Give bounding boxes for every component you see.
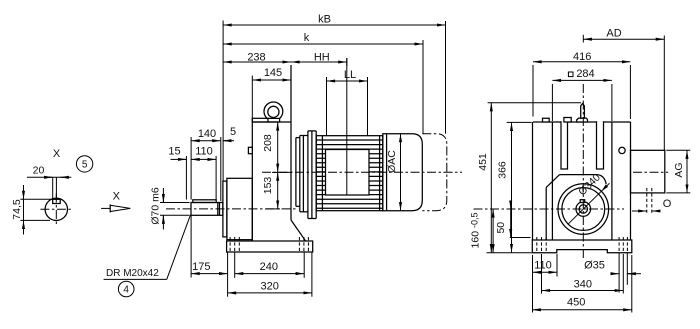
svg-text:5: 5 (82, 160, 88, 171)
shaft section centerline vertical (55, 194, 57, 227)
front view horizontal centerline (474, 208, 625, 210)
dimension 110 foot (533, 254, 558, 313)
svg-text:LL: LL (344, 69, 356, 81)
dimension 160 -0,5 (470, 209, 532, 253)
svg-text:340: 340 (574, 278, 592, 290)
dimension 366 (496, 122, 531, 252)
label DR M20x42 with leader (104, 215, 191, 280)
dimension 340 (542, 254, 624, 294)
dimension 208 (262, 122, 292, 172)
dimension AG (666, 150, 690, 193)
svg-text:240: 240 (260, 261, 278, 273)
drain hole hidden lines (647, 188, 652, 214)
svg-text:4: 4 (123, 285, 129, 296)
svg-text:20: 20 (33, 164, 45, 176)
motor stator block (326, 150, 370, 196)
top lug left (543, 118, 550, 122)
dimension 110 key length (191, 146, 216, 200)
shaft cross-section circle (45, 198, 67, 220)
svg-text:366: 366 (496, 161, 508, 179)
dimension Ø35 (584, 253, 641, 293)
shaft key side view (193, 200, 216, 203)
dimension 153 (262, 172, 280, 209)
svg-text:ØAC: ØAC (386, 150, 398, 173)
svg-text:AD: AD (606, 27, 621, 39)
output shaft centerline (166, 208, 298, 210)
eyebolt ring (264, 102, 283, 121)
dimension 140 shaft length (191, 128, 221, 201)
flange ring 1 (296, 138, 300, 207)
view direction label X (113, 190, 121, 202)
dimension AD (583, 27, 664, 150)
svg-text:284: 284 (576, 68, 594, 80)
svg-text:X: X (113, 190, 121, 202)
breather valve (577, 103, 588, 122)
dimension kB (223, 13, 445, 181)
clamp slot right (597, 121, 604, 169)
dimension HH (291, 51, 347, 63)
dimension 50 (495, 201, 531, 238)
output flange circle inner (562, 188, 605, 231)
housing front face edges (552, 122, 612, 240)
dimension 5 (223, 126, 236, 141)
motor vertical centerline (346, 58, 348, 195)
keyway key section (53, 199, 61, 203)
dimension k (223, 32, 423, 134)
shaft section centerline horizontal (40, 208, 71, 210)
svg-text:74,5: 74,5 (11, 199, 23, 220)
svg-text:175: 175 (192, 261, 210, 273)
fan cowl (383, 134, 423, 211)
dimension LL (327, 58, 368, 136)
svg-text:Ø35: Ø35 (584, 259, 605, 271)
svg-text:153: 153 (262, 177, 274, 195)
svg-text:208: 208 (262, 134, 274, 152)
output flange circle outer (558, 184, 609, 235)
output boss (546, 175, 606, 240)
dimension 450 (532, 255, 632, 313)
balloon 4 (118, 281, 134, 297)
foundation bolt hole left (230, 237, 239, 252)
input shaft centerline (633, 171, 668, 173)
gearbox body (252, 65, 305, 241)
clamp slot left (561, 121, 568, 169)
side tap hole (619, 147, 625, 153)
motor cooling fins (316, 136, 383, 211)
svg-text:145: 145 (264, 67, 282, 79)
extended motor dashed outline (422, 134, 447, 211)
dimension 320 (228, 253, 312, 297)
dimension square 284 (552, 68, 612, 121)
dimension O (632, 198, 672, 211)
gearbox side tab (248, 147, 252, 153)
anchor bolt hole left front (537, 237, 546, 253)
output key (580, 200, 585, 203)
svg-text:50: 50 (495, 222, 507, 234)
svg-text:320: 320 (261, 280, 279, 292)
dimension 20 keyway width (27, 164, 71, 199)
output shaft (191, 203, 223, 216)
anchor bolt hole right front (619, 237, 627, 253)
foundation bolt hole right (299, 237, 308, 252)
dimension Ø340 leader (569, 171, 610, 223)
svg-text:451: 451 (477, 153, 489, 171)
dimension 74,5 shaft height (11, 185, 53, 235)
dimension ØAC (386, 134, 401, 211)
motor body (316, 136, 383, 211)
dimension 238 (223, 51, 291, 63)
output hub circle (576, 202, 591, 217)
svg-text:110: 110 (195, 146, 213, 158)
dimension 416 (533, 51, 630, 119)
svg-text:110: 110 (534, 259, 552, 271)
detail view balloon 5 (76, 156, 92, 172)
svg-text:450: 450 (567, 296, 585, 308)
shaft collar ring (223, 181, 227, 237)
view direction arrow (101, 204, 130, 212)
eyebolt base (268, 118, 280, 122)
dimension 15 (168, 146, 186, 200)
motor centerline (262, 171, 462, 173)
flange ring 3 (308, 131, 316, 219)
front view vertical centerline (582, 35, 584, 259)
dimension 451 (477, 103, 581, 253)
gearbox base (227, 241, 313, 252)
svg-text:X: X (53, 148, 61, 160)
svg-text:O: O (663, 198, 672, 210)
base plate front (532, 240, 632, 253)
output shaft circle (579, 205, 587, 213)
detail view label X (53, 148, 61, 160)
gearbox top lip (252, 118, 268, 122)
output bearing hub (227, 178, 252, 239)
svg-text:k: k (304, 32, 310, 44)
dimension Ø70 m6 (149, 187, 189, 229)
input shaft block (631, 150, 665, 193)
svg-text:5: 5 (230, 126, 236, 138)
svg-text:140: 140 (198, 128, 216, 140)
svg-text:kB: kB (318, 13, 331, 25)
dimension 240 (235, 253, 305, 278)
svg-text:15: 15 (168, 146, 180, 158)
flange ring 2 (300, 136, 308, 212)
svg-text:Ø70 m6: Ø70 m6 (149, 187, 161, 225)
top lug middle (564, 118, 571, 123)
dimension 175 (191, 215, 228, 296)
dimension 145 (252, 67, 291, 119)
svg-text:DR M20x42: DR M20x42 (106, 268, 159, 279)
svg-text:AG: AG (673, 162, 685, 177)
housing outline (533, 122, 631, 240)
